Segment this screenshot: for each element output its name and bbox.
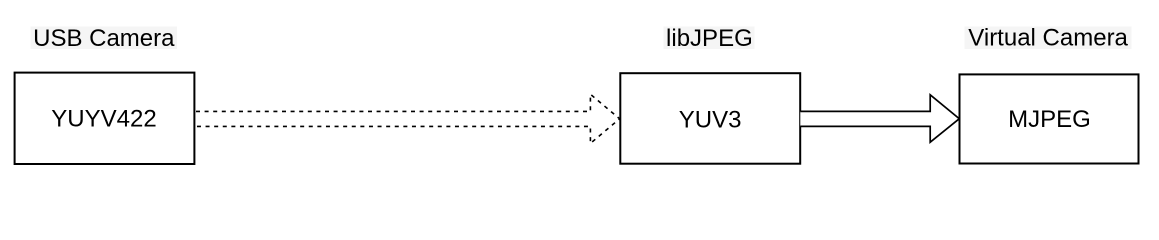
label background: libJPEG bbox=[664, 27, 755, 50]
svg-text:YUV3: YUV3 bbox=[679, 107, 742, 134]
svg-text:libJPEG: libJPEG bbox=[666, 25, 753, 52]
svg-text:USB Camera: USB Camera bbox=[33, 25, 175, 52]
label background: USB Camera bbox=[31, 27, 178, 50]
solid block arrow: YUV3 to MJPEG bbox=[800, 95, 959, 142]
box: USB Camera (YUYV422) bbox=[15, 73, 195, 164]
dashed block arrow: YUYV422 to YUV3 bbox=[196, 94, 620, 143]
svg-text:YUYV422: YUYV422 bbox=[51, 106, 156, 133]
label background: Virtual Camera bbox=[965, 27, 1132, 50]
box: libJPEG (YUV3) bbox=[620, 73, 800, 164]
box: Virtual Camera (MJPEG) bbox=[960, 74, 1139, 163]
svg-text:Virtual Camera: Virtual Camera bbox=[968, 25, 1128, 52]
svg-text:MJPEG: MJPEG bbox=[1008, 106, 1091, 133]
